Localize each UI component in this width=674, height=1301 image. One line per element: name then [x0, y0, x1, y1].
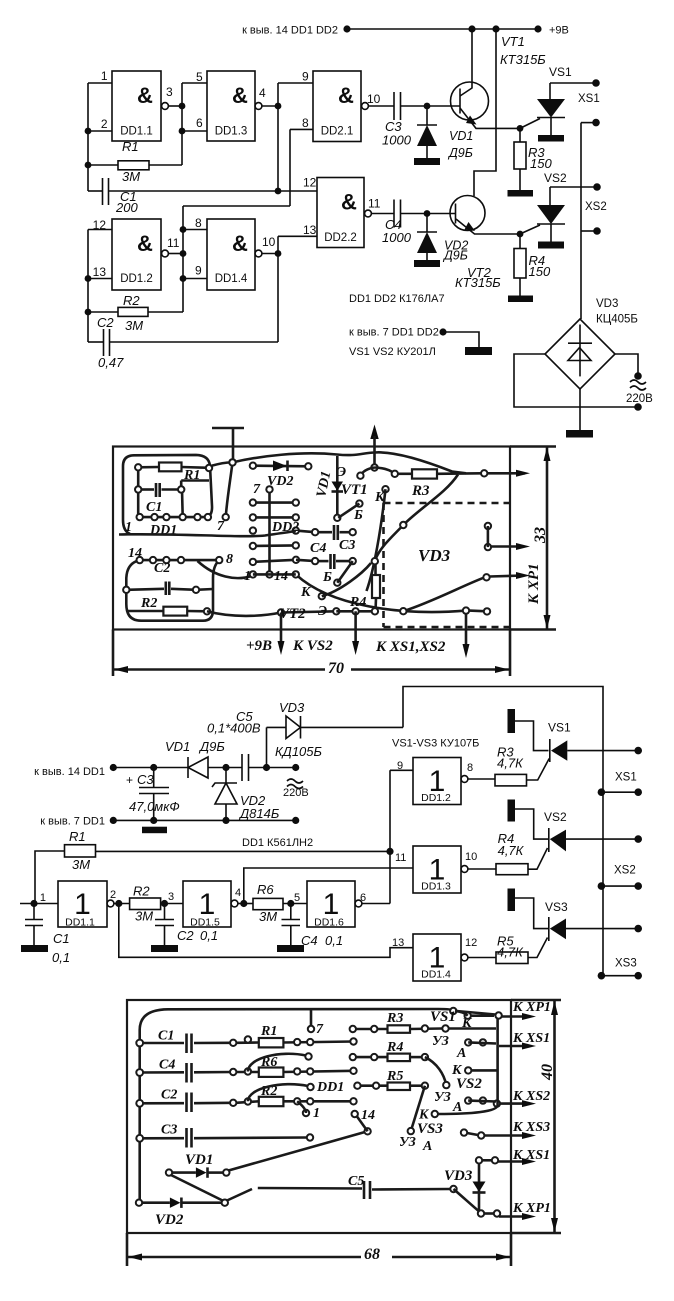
svg-text:КЦ405Б: КЦ405Б [596, 314, 638, 326]
svg-text:3М: 3М [72, 857, 90, 872]
svg-text:С2: С2 [161, 1088, 177, 1103]
svg-text:DD1.2: DD1.2 [120, 273, 153, 285]
svg-text:5: 5 [294, 892, 300, 904]
svg-text:VS1: VS1 [548, 721, 571, 735]
svg-text:14: 14 [274, 569, 288, 584]
svg-text:R2: R2 [140, 596, 157, 611]
svg-text:33: 33 [532, 527, 549, 544]
svg-text:DD1.1: DD1.1 [120, 126, 153, 138]
svg-text:7: 7 [253, 482, 261, 497]
svg-text:R2: R2 [133, 884, 150, 899]
svg-text:0,1: 0,1 [200, 928, 218, 943]
svg-text:11: 11 [368, 197, 381, 211]
svg-text:3М: 3М [125, 318, 143, 333]
svg-text:С4: С4 [310, 541, 326, 556]
svg-text:VS2: VS2 [544, 810, 567, 824]
svg-text:1000: 1000 [382, 230, 412, 245]
svg-text:R2: R2 [123, 293, 140, 308]
svg-text:Д9Б: Д9Б [447, 146, 473, 160]
svg-text:VD3: VD3 [279, 700, 305, 715]
svg-text:12: 12 [303, 176, 317, 190]
svg-text:КД105Б: КД105Б [275, 744, 323, 759]
svg-text:11: 11 [167, 236, 180, 250]
svg-text:12: 12 [93, 218, 107, 232]
svg-text:DD1.4: DD1.4 [421, 969, 451, 981]
svg-text:150: 150 [529, 264, 551, 279]
svg-text:Б: Б [353, 508, 363, 523]
svg-text:к выв. 14 DD1 DD2: к выв. 14 DD1 DD2 [242, 25, 338, 37]
svg-text:0,1*400В: 0,1*400В [207, 721, 261, 736]
svg-text:Д9Б: Д9Б [442, 249, 468, 263]
svg-text:к выв. 7 DD1: к выв. 7 DD1 [40, 816, 105, 828]
svg-text:DD1: DD1 [316, 1080, 344, 1095]
svg-text:13: 13 [303, 223, 317, 237]
svg-text:4,7К: 4,7К [498, 843, 525, 858]
svg-text:VT1: VT1 [501, 34, 525, 49]
svg-text:DD2.1: DD2.1 [321, 126, 354, 138]
svg-text:DD2.2: DD2.2 [324, 232, 357, 244]
svg-text:220В: 220В [626, 393, 653, 405]
svg-text:VS1-VS3 КУ107Б: VS1-VS3 КУ107Б [392, 738, 479, 750]
svg-text:C2: C2 [154, 561, 170, 576]
svg-text:VD3: VD3 [444, 1168, 473, 1184]
svg-text:К VS2: К VS2 [292, 638, 333, 654]
svg-text:VS1 VS2 КУ201Л: VS1 VS2 КУ201Л [349, 346, 436, 358]
svg-text:2: 2 [110, 889, 116, 901]
svg-text:Д9Б: Д9Б [198, 739, 225, 754]
svg-text:0,47: 0,47 [98, 355, 124, 370]
svg-text:КТ315Б: КТ315Б [500, 52, 546, 67]
svg-text:С3: С3 [137, 772, 154, 787]
svg-text:6: 6 [196, 116, 203, 130]
svg-text:С4: С4 [159, 1058, 175, 1073]
svg-text:47,0мкФ: 47,0мкФ [129, 799, 180, 814]
svg-text:DD1.1: DD1.1 [65, 917, 95, 929]
svg-text:VD3: VD3 [596, 298, 618, 310]
svg-text:R4: R4 [386, 1040, 403, 1055]
svg-text:К ХР1: К ХР1 [526, 563, 542, 605]
svg-text:10: 10 [262, 235, 276, 249]
svg-text:&: & [338, 83, 354, 108]
svg-text:XS3: XS3 [615, 958, 637, 970]
svg-text:200: 200 [115, 200, 138, 215]
svg-text:К ХР1: К ХР1 [512, 1201, 551, 1216]
svg-text:3М: 3М [259, 909, 277, 924]
svg-text:XS1: XS1 [578, 93, 600, 105]
svg-text:4: 4 [259, 86, 266, 100]
svg-text:DD1 DD2 К176ЛА7: DD1 DD2 К176ЛА7 [349, 293, 445, 305]
svg-text:12: 12 [465, 937, 477, 949]
svg-text:1000: 1000 [382, 133, 412, 148]
svg-text:КТ315Б: КТ315Б [455, 275, 501, 290]
svg-text:VD1: VD1 [449, 129, 473, 143]
svg-text:2: 2 [101, 117, 108, 131]
svg-text:R6: R6 [257, 882, 274, 897]
svg-text:3: 3 [166, 85, 173, 99]
svg-text:DD1.6: DD1.6 [314, 917, 344, 929]
svg-text:70: 70 [328, 660, 344, 677]
svg-text:8: 8 [195, 216, 202, 230]
svg-text:VD3: VD3 [418, 546, 451, 565]
svg-text:VS3: VS3 [545, 900, 568, 914]
svg-text:8: 8 [467, 762, 473, 774]
svg-text:C1: C1 [146, 500, 162, 515]
svg-text:7: 7 [316, 1022, 324, 1037]
svg-text:150: 150 [530, 156, 552, 171]
svg-text:11: 11 [395, 852, 406, 864]
svg-text:1: 1 [125, 520, 132, 535]
svg-text:VS1: VS1 [549, 65, 572, 79]
svg-text:C4: C4 [301, 933, 318, 948]
svg-text:к выв. 14 DD1: к выв. 14 DD1 [34, 766, 105, 778]
svg-text:0,1: 0,1 [52, 950, 70, 965]
svg-text:XS2: XS2 [585, 201, 607, 213]
svg-text:R5: R5 [386, 1069, 403, 1084]
svg-text:5: 5 [196, 70, 203, 84]
svg-text:3М: 3М [135, 909, 153, 924]
svg-text:R1: R1 [183, 468, 200, 483]
svg-text:0,1: 0,1 [325, 933, 343, 948]
svg-text:9: 9 [302, 70, 309, 84]
svg-text:VD1: VD1 [185, 1152, 213, 1168]
svg-text:XS1: XS1 [615, 772, 637, 784]
svg-text:8: 8 [226, 552, 233, 567]
svg-text:DD1.4: DD1.4 [215, 273, 248, 285]
svg-text:7: 7 [217, 519, 225, 534]
svg-text:УЗ: УЗ [399, 1135, 416, 1150]
svg-text:1: 1 [40, 892, 46, 904]
svg-text:К XS3: К XS3 [512, 1120, 550, 1135]
svg-text:R3: R3 [386, 1011, 403, 1026]
svg-text:&: & [341, 190, 357, 215]
svg-text:К ХР1: К ХР1 [512, 1000, 551, 1015]
svg-text:C1: C1 [53, 931, 70, 946]
svg-text:+: + [126, 773, 133, 787]
svg-text:А: А [456, 1046, 466, 1061]
svg-text:К: К [300, 585, 312, 600]
svg-text:&: & [137, 83, 153, 108]
svg-text:68: 68 [364, 1246, 380, 1263]
svg-text:10: 10 [367, 92, 381, 106]
svg-text:&: & [137, 231, 153, 256]
svg-text:8: 8 [302, 116, 309, 130]
svg-text:VT2: VT2 [279, 606, 306, 622]
svg-text:4: 4 [235, 887, 241, 899]
svg-text:220В: 220В [283, 787, 309, 799]
svg-text:DD1.3: DD1.3 [421, 881, 451, 893]
svg-text:40: 40 [539, 1064, 556, 1081]
svg-text:VT1: VT1 [341, 482, 368, 498]
svg-text:С1: С1 [158, 1029, 174, 1044]
svg-text:к выв. 7 DD1 DD2: к выв. 7 DD1 DD2 [349, 327, 439, 339]
svg-text:R1: R1 [260, 1024, 277, 1039]
svg-text:С5: С5 [348, 1174, 364, 1189]
svg-text:13: 13 [392, 937, 404, 949]
svg-text:DD1 К561ЛН2: DD1 К561ЛН2 [242, 837, 313, 849]
svg-text:C2: C2 [97, 315, 114, 330]
svg-text:VD2: VD2 [155, 1212, 184, 1228]
svg-text:DD1.5: DD1.5 [190, 917, 220, 929]
svg-text:DD1.2: DD1.2 [421, 792, 451, 804]
svg-text:Э: Э [318, 604, 327, 619]
svg-text:3М: 3М [122, 169, 140, 184]
svg-text:VS2: VS2 [456, 1076, 482, 1092]
svg-text:+9В: +9В [549, 25, 569, 37]
svg-text:DD1.3: DD1.3 [215, 126, 248, 138]
svg-text:УЗ: УЗ [434, 1090, 451, 1105]
svg-text:R3: R3 [411, 483, 430, 499]
svg-text:+9В: +9В [246, 638, 272, 654]
svg-text:&: & [232, 83, 248, 108]
svg-text:1: 1 [244, 569, 251, 584]
svg-text:VD1: VD1 [165, 739, 190, 754]
svg-text:C2: C2 [177, 928, 194, 943]
svg-text:Б: Б [322, 570, 332, 585]
svg-text:4,7К: 4,7К [497, 945, 524, 960]
svg-text:9: 9 [397, 760, 403, 772]
svg-text:1: 1 [313, 1106, 320, 1121]
svg-text:Д814Б: Д814Б [238, 806, 280, 821]
svg-text:К XS2: К XS2 [512, 1089, 550, 1104]
svg-text:С3: С3 [161, 1123, 177, 1138]
svg-text:14: 14 [361, 1108, 375, 1123]
svg-text:4,7К: 4,7К [497, 756, 524, 771]
svg-text:3: 3 [168, 891, 174, 903]
svg-text:6: 6 [360, 892, 366, 904]
svg-text:9: 9 [195, 264, 202, 278]
svg-text:R1: R1 [122, 139, 139, 154]
svg-text:13: 13 [93, 265, 107, 279]
svg-text:VS1: VS1 [430, 1009, 456, 1025]
svg-text:XS2: XS2 [614, 865, 636, 877]
svg-text:УЗ: УЗ [432, 1034, 449, 1049]
svg-text:К XS1,XS2: К XS1,XS2 [375, 639, 446, 655]
svg-text:1: 1 [101, 69, 108, 83]
svg-text:С3: С3 [339, 538, 355, 553]
svg-text:К XS1: К XS1 [512, 1031, 550, 1046]
svg-text:&: & [232, 231, 248, 256]
svg-text:VS2: VS2 [544, 171, 567, 185]
svg-text:10: 10 [465, 851, 477, 863]
svg-text:R1: R1 [69, 829, 86, 844]
svg-text:А: А [422, 1139, 432, 1154]
svg-text:VS3: VS3 [417, 1121, 443, 1137]
